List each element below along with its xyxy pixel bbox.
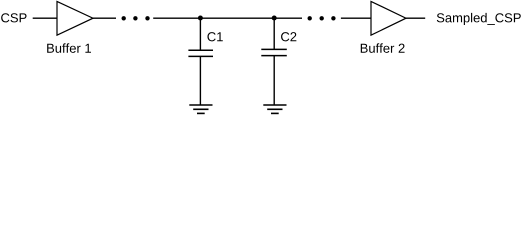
label Buffer 2 bbox=[361, 43, 405, 53]
junction node at C1 bbox=[198, 16, 203, 21]
capacitor C1 bbox=[188, 18, 213, 105]
wire CSP input to Buffer 1 bbox=[33, 17, 57, 19]
continuation dots (right group) bbox=[308, 16, 336, 20]
wire Buffer 2 output bbox=[406, 17, 425, 19]
label C1 bbox=[207, 32, 222, 41]
label Buffer 1 bbox=[47, 43, 91, 53]
ground symbol under C2 bbox=[263, 105, 286, 113]
wire main bus from dots through C1 node to C2 node bbox=[153, 17, 302, 19]
op-amp buffer Buffer 1 bbox=[57, 1, 93, 35]
capacitor C2 bbox=[261, 18, 287, 105]
junction node at C2 bbox=[272, 16, 277, 21]
ground symbol under C1 bbox=[189, 105, 212, 113]
op-amp buffer Buffer 2 bbox=[371, 1, 406, 35]
node Sampled_CSP label bbox=[437, 13, 521, 25]
wire dots to Buffer 2 input bbox=[341, 17, 371, 19]
continuation dots (left group) bbox=[122, 16, 150, 20]
node CSP label bbox=[1, 13, 26, 22]
wire Buffer 1 output bbox=[93, 17, 116, 19]
label C2 bbox=[281, 32, 296, 41]
